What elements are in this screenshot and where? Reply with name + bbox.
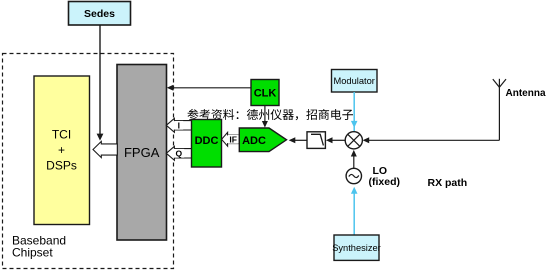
svg-text:Chipset: Chipset [12, 246, 53, 260]
block DDC [192, 120, 222, 168]
wire Modulator to mixer (cyan) [353, 92, 355, 131]
svg-text:Antenna: Antenna [506, 88, 546, 99]
block FPGA [117, 65, 167, 241]
svg-text:Modulator: Modulator [334, 76, 375, 86]
bus arrow DDC to FPGA Q (hollow) [166, 146, 191, 160]
svg-text:DSPs: DSPs [46, 159, 77, 173]
cyan arrowhead up at LO [351, 187, 358, 194]
wire CLK to ADC [264, 105, 266, 122]
svg-text:+: + [58, 143, 65, 157]
mixer (circle with X) [345, 132, 362, 149]
wire LO to mixer [353, 155, 355, 168]
antenna [493, 79, 506, 141]
filter (low-pass) [307, 132, 325, 149]
wire CLK to FPGA [172, 87, 251, 89]
arrowhead left at filter [326, 137, 333, 143]
svg-text:ADC: ADC [242, 135, 266, 147]
wire Synthesizer to LO (cyan) [353, 191, 355, 236]
dashed boundary Baseband Chipset [3, 54, 174, 269]
block Modulator [332, 70, 378, 93]
svg-text:FPGA: FPGA [124, 145, 160, 160]
svg-text:I: I [178, 121, 180, 131]
block CLK [251, 80, 279, 106]
label Q [174, 149, 184, 158]
block TCI + DSPs [34, 76, 90, 225]
bus arrow ADC to DDC IF (hollow) [222, 132, 240, 146]
bus arrow FPGA to TCI (hollow) [93, 141, 117, 157]
svg-text:Sedes: Sedes [84, 8, 115, 20]
svg-text:RX path: RX path [428, 177, 468, 189]
cyan arrowhead down [351, 121, 358, 128]
adc ADC (pointed block) [239, 128, 286, 152]
wire filter to ADC [294, 139, 308, 141]
arrowhead left at FPGA [167, 85, 174, 91]
svg-text:TCI: TCI [52, 128, 71, 142]
chinese reference text 参考资料：德州仪器，招商电子 [188, 109, 354, 120]
svg-text:(fixed): (fixed) [369, 176, 401, 188]
wire Sedes to FPGA/TCI (vertical) [99, 25, 101, 134]
wire mixer to filter [331, 139, 346, 141]
arrowhead down (end of Sedes wire) [97, 134, 104, 141]
svg-text:DDC: DDC [195, 135, 219, 147]
block Sedes [69, 2, 131, 26]
svg-text:Q: Q [175, 149, 182, 159]
wire antenna to mixer [368, 139, 500, 141]
arrowhead up at mixer [351, 150, 357, 157]
arrowhead left at ADC [289, 137, 296, 143]
oscillator LO [346, 168, 361, 183]
svg-text:CLK: CLK [254, 88, 277, 100]
block Synthesizer [332, 235, 381, 260]
svg-text:Synthesizer: Synthesizer [332, 243, 381, 253]
svg-text:IF: IF [229, 135, 237, 145]
arrowhead down at ADC [262, 121, 268, 128]
label IF [228, 135, 239, 144]
arrowhead left at mixer [363, 137, 370, 143]
label I [175, 121, 183, 130]
bus arrow DDC to FPGA I (hollow) [166, 118, 191, 132]
